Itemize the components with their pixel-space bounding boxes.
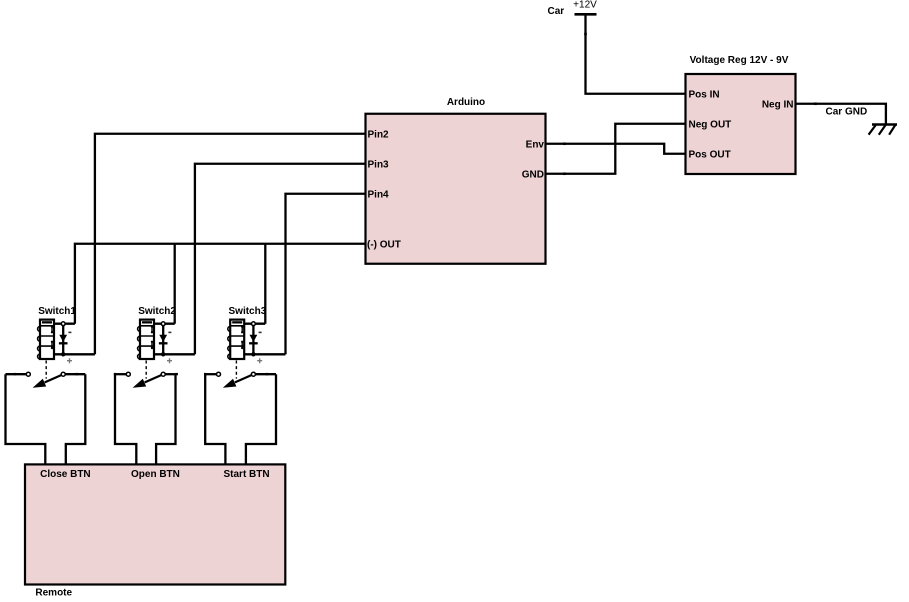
svg-text:Car: Car <box>548 6 565 17</box>
svg-text:+12V: +12V <box>573 0 597 11</box>
wire: Switch2 bottom rail <box>154 353 195 355</box>
svg-text:Arduino: Arduino <box>447 97 485 108</box>
wire: S3 left leg to Remote <box>205 374 225 464</box>
svg-text:Pos IN: Pos IN <box>689 89 720 100</box>
svg-text:Pos OUT: Pos OUT <box>689 149 731 160</box>
wire: Pin4 net to Switch3 <box>286 194 366 355</box>
svg-text:(-) OUT: (-) OUT <box>367 239 401 250</box>
wire: +12V to Pos IN <box>586 15 686 94</box>
junction dot bottom of D3 <box>251 352 255 356</box>
svg-text:Pin4: Pin4 <box>368 189 390 200</box>
wire: Switch3 top rail <box>244 323 265 325</box>
toggle switch S1 contacts <box>26 372 65 388</box>
Remote box <box>25 464 285 584</box>
svg-text:Neg OUT: Neg OUT <box>689 119 732 130</box>
svg-text:GND: GND <box>522 169 544 180</box>
wire: S1 left leg to Remote <box>6 374 46 464</box>
svg-text:Pin2: Pin2 <box>368 129 390 140</box>
wire: GND to Neg OUT <box>546 124 686 174</box>
ground symbol (chassis) <box>869 125 897 135</box>
relay K1 (Switch1) <box>38 320 54 359</box>
wire: toggle S1 left lead <box>6 373 27 375</box>
wire: toggle S2 right lead <box>165 373 175 375</box>
wire: S1 right leg to Remote <box>66 374 86 464</box>
toggle switch S3 contacts <box>217 372 256 388</box>
toggle switch S2 contacts <box>126 372 165 388</box>
voltage regulator U2 box <box>686 74 796 174</box>
wire: toggle S2 left lead <box>115 373 126 375</box>
svg-text:Env: Env <box>526 139 545 150</box>
svg-text:Close BTN: Close BTN <box>40 469 91 480</box>
relay K3 (Switch3) <box>228 320 244 359</box>
Arduino U1 box <box>366 114 546 264</box>
wire: (-) OUT branch to Switch2 <box>174 244 176 324</box>
wire: (-) OUT bus <box>75 244 366 324</box>
wire: Env to Pos OUT <box>546 144 686 154</box>
wire: Pin2 net to Switch1 <box>95 134 366 355</box>
dashed actuator link of Switch3 <box>235 361 237 379</box>
svg-text:Neg IN: Neg IN <box>762 99 794 110</box>
svg-text:Switch2: Switch2 <box>138 306 176 317</box>
dashed actuator link of Switch1 <box>45 361 47 379</box>
junction: open pin circle top of D2 <box>161 322 165 326</box>
diode D1 <box>59 324 72 364</box>
wire: Pin3 net to Switch2 <box>195 164 366 355</box>
svg-text:Pin3: Pin3 <box>368 159 390 170</box>
power symbol +12V (Car) <box>573 0 597 14</box>
svg-text:Voltage Reg 12V - 9V: Voltage Reg 12V - 9V <box>690 55 789 66</box>
diode D3 <box>249 324 262 364</box>
junction dot bottom of D1 <box>61 352 65 356</box>
wire: S2 right leg to Remote <box>156 374 175 464</box>
wire: Switch1 top rail <box>54 323 75 325</box>
dashed actuator link of Switch2 <box>145 361 147 379</box>
wire: Switch3 bottom rail <box>244 353 285 355</box>
svg-text:Switch1: Switch1 <box>38 306 76 317</box>
svg-text:Start BTN: Start BTN <box>224 469 270 480</box>
wire: Switch2 top rail <box>154 323 175 325</box>
junction: open pin circle top of D3 <box>252 322 256 326</box>
diode D2 <box>159 324 172 364</box>
svg-text:Open BTN: Open BTN <box>131 469 180 480</box>
junction dot bottom of D2 <box>161 352 165 356</box>
wire: Switch1 bottom rail <box>54 353 95 355</box>
svg-text:Remote: Remote <box>35 588 72 599</box>
wire: (-) OUT branch to Switch3 <box>264 244 266 324</box>
junction: open pin circle top of D1 <box>61 322 65 326</box>
svg-text:Car GND: Car GND <box>826 107 868 118</box>
relay K2 (Switch2) <box>138 320 154 359</box>
svg-text:Switch3: Switch3 <box>229 306 267 317</box>
wire: S2 left leg to Remote <box>115 374 136 464</box>
wire: toggle S3 left lead <box>205 373 216 375</box>
wire: toggle S3 right lead <box>256 373 277 375</box>
wire: S3 right leg to Remote <box>246 374 276 464</box>
wire: toggle S1 right lead <box>65 373 85 375</box>
wire: Neg IN to ground <box>796 104 886 125</box>
